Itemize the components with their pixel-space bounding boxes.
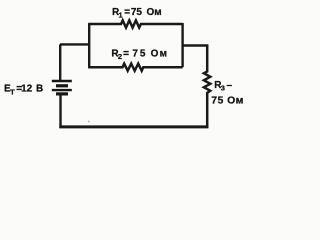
wire	[88, 24, 90, 67]
wire	[183, 44, 209, 46]
resistor R2	[88, 64, 183, 71]
wire	[60, 43, 89, 45]
resistor R1	[88, 20, 183, 27]
wire	[59, 95, 61, 129]
svg-text:R3–: R3–	[214, 80, 232, 93]
svg-text:75 Ом: 75 Ом	[211, 95, 244, 107]
resistor R3	[204, 45, 210, 129]
svg-text:R2=75Ом: R2=75Ом	[111, 49, 168, 62]
battery ET	[52, 81, 72, 94]
svg-text:R1=75Ом: R1=75Ом	[112, 7, 162, 20]
wire	[59, 44, 61, 80]
svg-text:ET=12 В: ET=12 В	[4, 83, 43, 96]
wire	[59, 125, 208, 128]
wire	[181, 23, 183, 67]
node A	[88, 121, 90, 123]
